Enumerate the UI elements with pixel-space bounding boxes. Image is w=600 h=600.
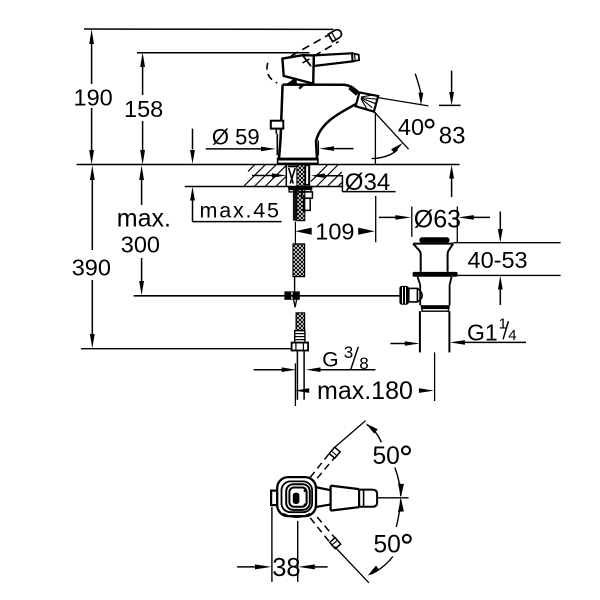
svg-text:max.45: max.45 <box>200 198 281 222</box>
handle pivot mark <box>299 84 304 88</box>
raised handle dashed arc <box>267 63 277 83</box>
dimension G1-1/4 left arrow <box>390 343 405 345</box>
390 bottom reference line <box>81 348 292 350</box>
dimension diameter59 extension line <box>317 141 319 156</box>
mounting locknut <box>288 187 312 190</box>
svg-text:83: 83 <box>439 123 466 150</box>
supply hose lower <box>296 313 305 331</box>
raised handle tip outline <box>328 28 343 42</box>
dimension max300 arrow up <box>139 165 144 180</box>
dimension max45 upper arrow <box>192 129 194 150</box>
dimension 158 arrow up <box>140 52 145 67</box>
dimension 390 arrow up <box>90 165 95 180</box>
svg-text:40: 40 <box>398 114 424 140</box>
top view pop-up tab <box>271 491 281 506</box>
dimension max180 left extension line <box>294 363 296 406</box>
dimension diameter63 right extension <box>456 207 458 244</box>
waste top flange <box>413 243 453 245</box>
dimension 109 right arrow <box>358 228 375 235</box>
top view body outer ring <box>277 477 316 516</box>
top view screw dots <box>304 489 307 492</box>
top view lever <box>331 486 360 511</box>
hose hex nut <box>292 343 309 351</box>
svg-text:50: 50 <box>374 532 401 559</box>
waste tailpipe <box>419 311 421 352</box>
top view centerline <box>377 497 409 499</box>
pop-up rod upper tail <box>294 277 296 292</box>
handle lever tip cap <box>352 53 359 61</box>
top view upper arc far arrowhead <box>366 423 378 433</box>
dimension 38 extension lines <box>271 507 273 582</box>
dimension max180 right arrow <box>419 388 434 393</box>
rod guide bracket <box>302 192 313 198</box>
pop-up rod lower tail <box>294 300 296 308</box>
top view dashed lever up edge2 <box>317 452 339 478</box>
svg-text:4: 4 <box>508 327 516 344</box>
top view lower arc segment2 <box>371 557 393 575</box>
top view dashed lever down edge2 <box>317 517 339 543</box>
dimension 40-53 bottom reference line <box>455 274 561 276</box>
dimension G1-1/4 right arrow and underline <box>450 340 465 345</box>
waste seal ring <box>413 272 458 277</box>
extension line top (lever raised reference) <box>84 28 334 30</box>
hole right bar <box>305 165 309 184</box>
svg-text:38: 38 <box>272 554 300 582</box>
svg-text:190: 190 <box>74 84 113 110</box>
top view handle neck <box>315 487 331 490</box>
top view body ring2 <box>282 481 313 512</box>
hole left washer <box>288 165 297 167</box>
svg-text:40-53: 40-53 <box>468 247 528 273</box>
top view base arc below body <box>283 514 311 518</box>
handle knob <box>282 55 313 83</box>
top view upper arc near arrowhead <box>398 484 404 498</box>
raised handle dashed edge A <box>291 34 331 56</box>
dimension max180 left arrow <box>294 388 309 393</box>
dimension max45 lower arrow <box>192 200 194 222</box>
dimension diameter63 left extension <box>411 207 413 237</box>
counter hatch right <box>311 165 342 188</box>
dimension 390 arrow down <box>90 334 95 348</box>
dimension max45 underline <box>193 221 282 223</box>
svg-text:158: 158 <box>124 96 163 122</box>
83 top arrow <box>451 71 453 93</box>
supply pipe <box>296 351 298 400</box>
svg-text:G: G <box>322 349 338 372</box>
hole right edge <box>308 165 310 187</box>
dimension 109 left arrow <box>295 228 312 235</box>
spray axis line <box>378 98 428 106</box>
svg-text:8: 8 <box>359 354 368 373</box>
dimension diameter34 label box <box>341 175 343 192</box>
dimension 390 line <box>91 179 93 335</box>
dimension 190 line upper <box>91 43 93 151</box>
faucet body outline <box>279 85 358 159</box>
dimension 40-53 top arrow <box>499 212 501 230</box>
dimension diameter34 leader arrow <box>311 173 325 178</box>
hole left edge <box>285 165 287 187</box>
dimension max300 arrow down <box>139 281 144 295</box>
dimension 40-53 bottom arrow <box>499 289 501 305</box>
extension line (lever rest reference) <box>137 52 310 54</box>
counter hatch left <box>243 164 286 187</box>
svg-text:300: 300 <box>121 232 160 258</box>
counter bottom line <box>185 186 342 188</box>
83 bottom arrow <box>451 178 453 197</box>
aerator spray fan <box>361 95 377 111</box>
top view lever tip <box>359 490 377 507</box>
waste adjustment knob <box>399 286 408 305</box>
threaded shank <box>297 165 305 221</box>
aerator junction wedge <box>350 87 358 94</box>
handle lever shaft <box>314 53 353 66</box>
40deg leader arrow curved <box>415 74 421 94</box>
pop-up rod clamp <box>284 291 299 299</box>
top view lower arc near arrowhead <box>398 498 404 512</box>
svg-text:3: 3 <box>344 343 353 362</box>
svg-text:109: 109 <box>315 218 354 244</box>
handle pivot wedge <box>286 78 298 84</box>
faucet base plinth <box>278 158 318 163</box>
top view dashed lever down edge1 <box>310 518 332 546</box>
top view dashed lever up edge1 <box>310 450 332 478</box>
svg-text:G1: G1 <box>467 320 498 346</box>
top view lower arc segment1 <box>396 499 401 527</box>
counter top line <box>77 164 460 166</box>
waste knob stem <box>409 288 418 302</box>
83 top reference bar <box>439 104 461 106</box>
dimension G3/8 left arrow <box>254 369 283 371</box>
hose ribbed connector <box>295 331 305 343</box>
shank side dark bar <box>293 189 297 221</box>
dimension 158 arrow down <box>140 150 145 165</box>
dimension diameter34 left arrow <box>252 175 273 177</box>
waste centerline <box>434 352 436 401</box>
aerator cap <box>356 92 379 111</box>
dimension max300 line <box>141 179 143 282</box>
raised handle dashed edge B <box>303 42 339 64</box>
top view ghost tip down <box>330 538 341 549</box>
top view body ring3 outer <box>286 484 310 510</box>
supply hose upper <box>293 244 305 277</box>
dimension diameter59 right arrow <box>334 148 354 150</box>
svg-text:Ø63: Ø63 <box>414 205 461 233</box>
top view cartridge D <box>293 493 300 504</box>
dimension diameter59 left arrow <box>206 148 262 150</box>
handle knob inner line <box>303 55 311 66</box>
dimension 38 left arrow <box>237 566 255 568</box>
svg-text:Ø34: Ø34 <box>345 169 390 196</box>
svg-text:max.180: max.180 <box>317 377 413 405</box>
svg-text:max.: max. <box>117 205 171 233</box>
spray direction 40deg leg <box>374 112 408 149</box>
pop-up rod tab <box>271 121 284 129</box>
40deg degree circle <box>426 120 434 128</box>
dimension G3/8 right arrow <box>306 367 321 372</box>
pop-up linkage rod <box>134 295 400 297</box>
top view upper arc segment2 <box>395 468 401 497</box>
dimension diameter63 right arrow <box>458 215 474 220</box>
svg-text:390: 390 <box>72 255 111 281</box>
top view upper arc segment1 <box>367 425 382 443</box>
svg-text:Ø 59: Ø 59 <box>212 125 260 150</box>
aerator vertical extension <box>374 112 376 164</box>
top view ghost tip up <box>329 447 340 458</box>
dimension 38 right arrow <box>298 564 315 569</box>
dimension 190 arrow up <box>89 29 94 44</box>
svg-text:50: 50 <box>373 443 400 470</box>
top view lower arc far arrowhead <box>368 566 380 576</box>
waste body below seal <box>418 277 452 306</box>
faucet centerline below shank <box>294 222 296 244</box>
top view body ring3 inner <box>289 488 306 507</box>
waste plug cap <box>419 237 449 243</box>
dimension 158 line <box>142 66 144 151</box>
top view upper leg line <box>334 421 365 448</box>
top view lower leg line <box>335 547 369 583</box>
dimension 190 arrow down <box>89 150 94 165</box>
waste locknut <box>421 305 450 308</box>
dimension diameter63 left arrow <box>379 216 396 218</box>
40deg arc arrow <box>372 150 398 159</box>
dimension 109 extension line <box>375 196 377 242</box>
dimension 40-53 top reference line <box>453 242 560 244</box>
